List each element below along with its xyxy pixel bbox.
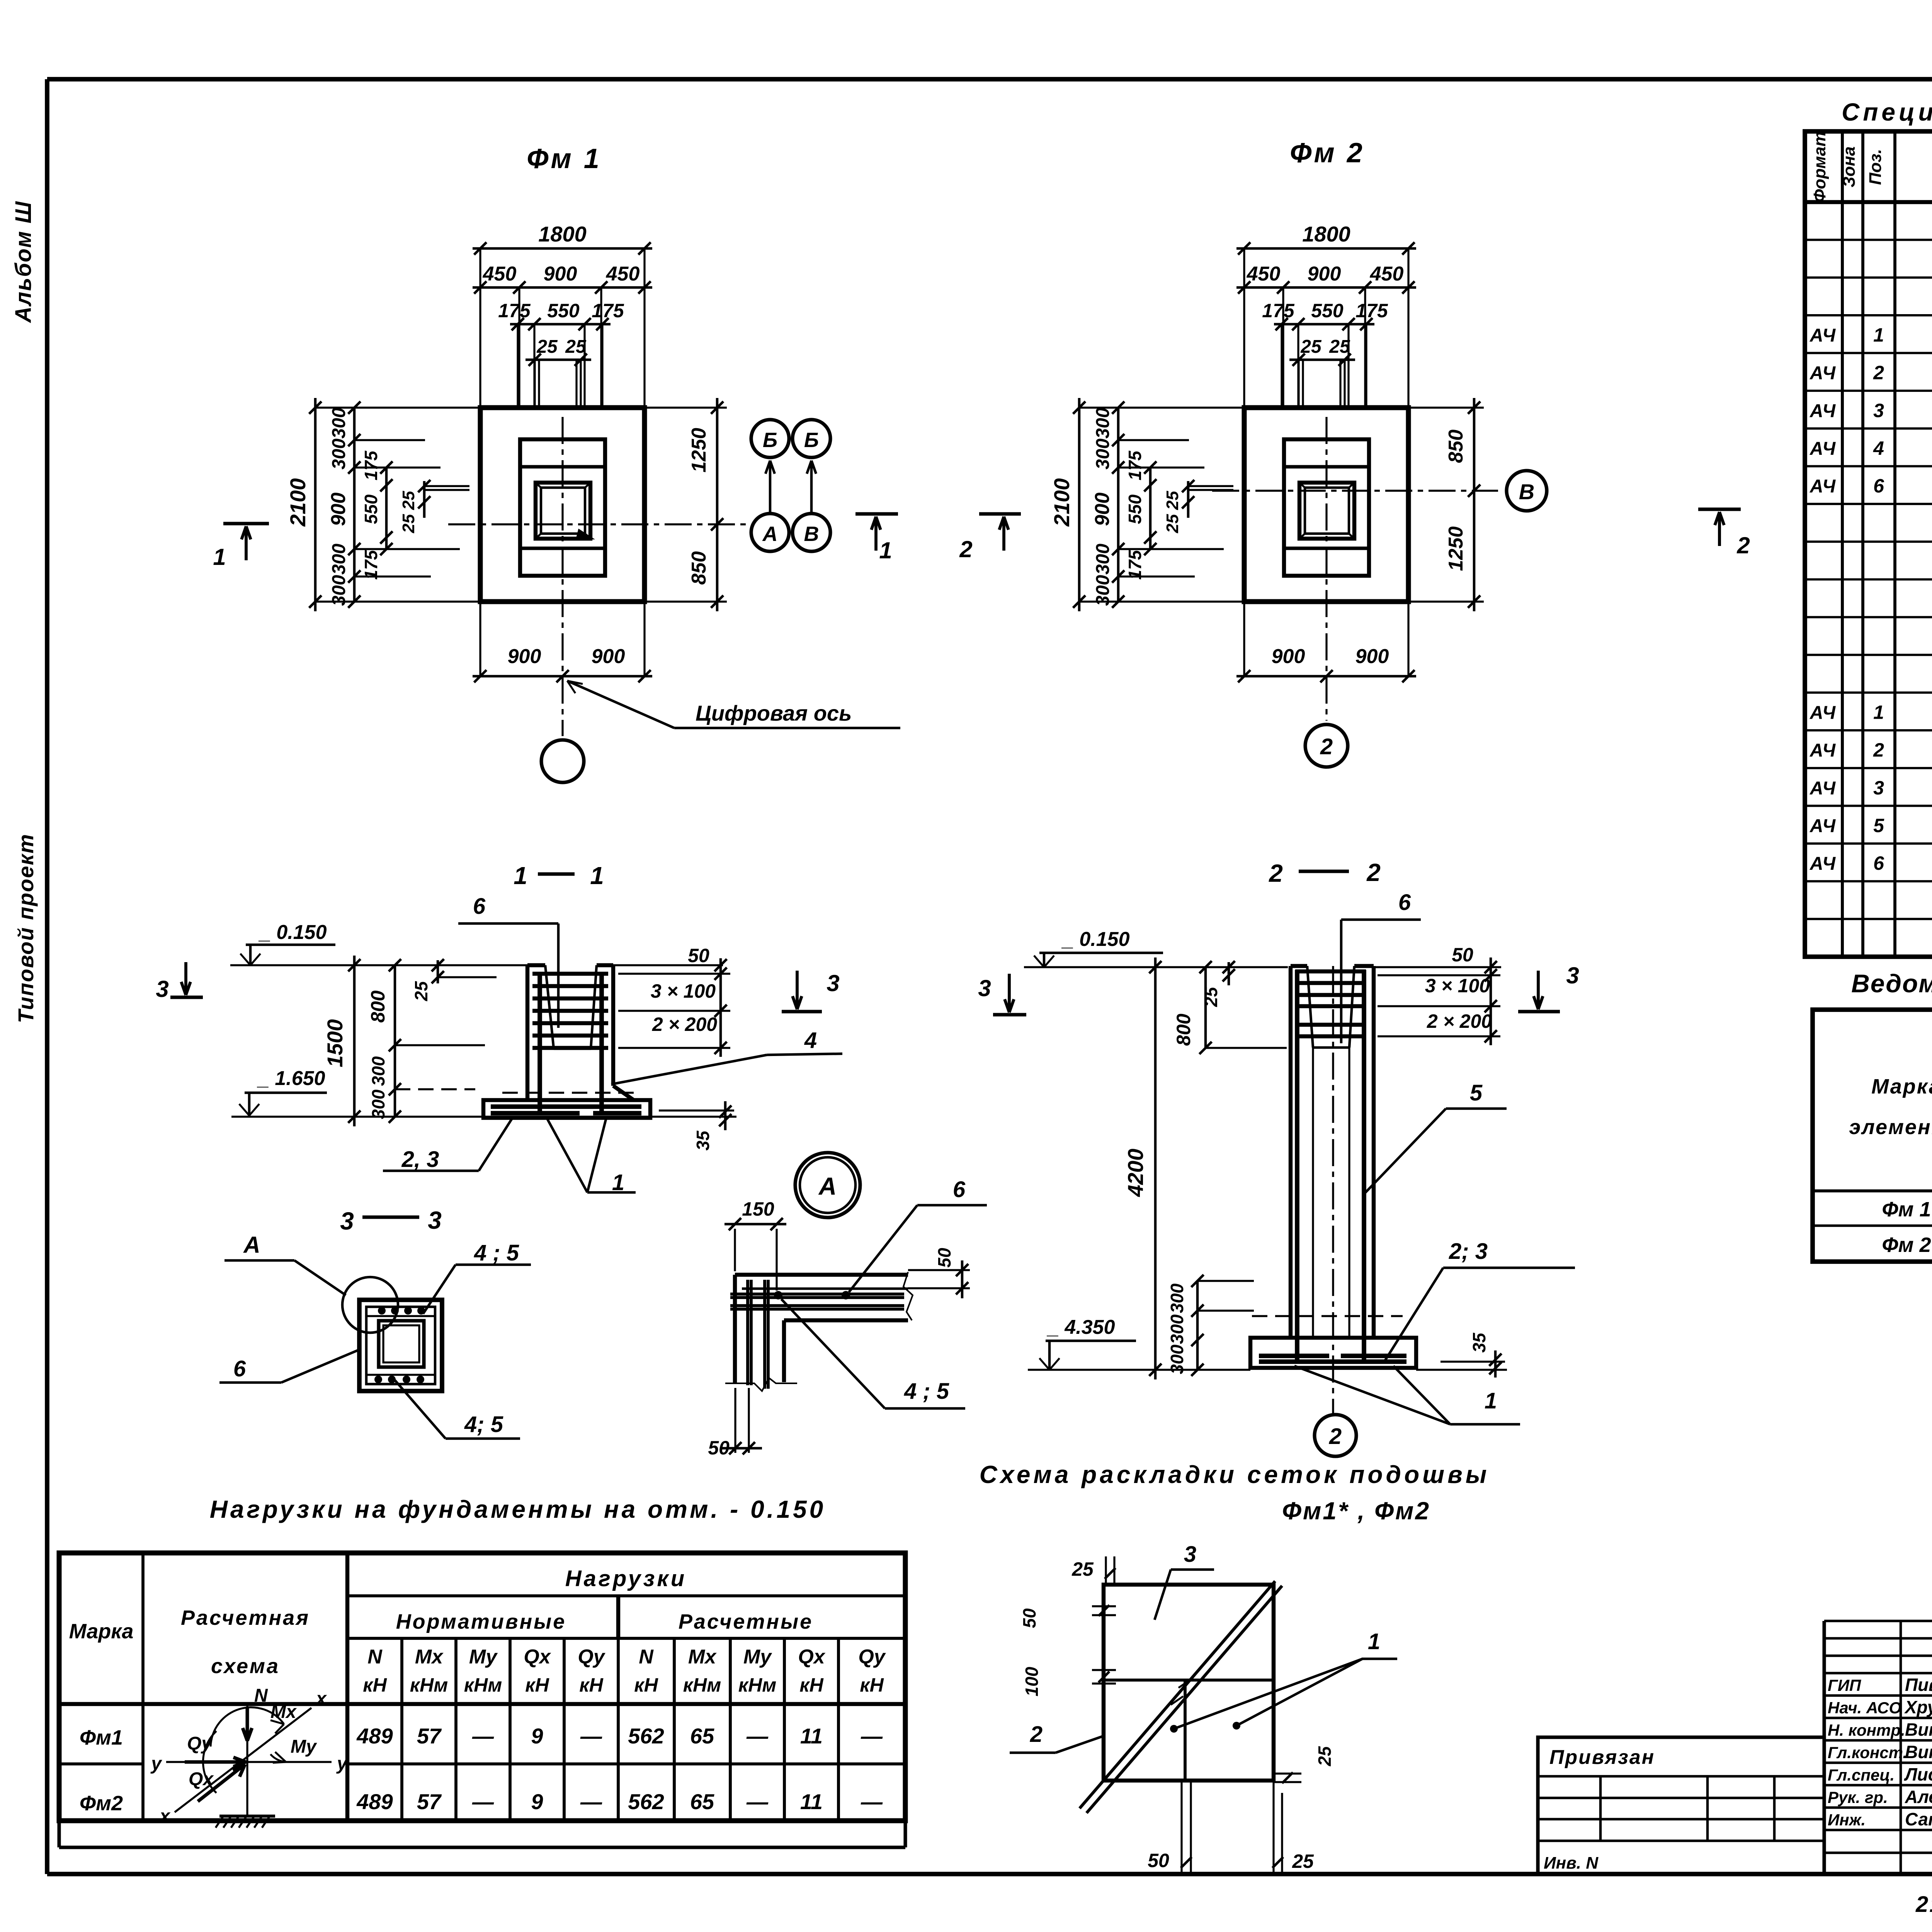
slab of detail A — [735, 1273, 908, 1277]
svg-text:Ведомость расхода стали на: Ведомость расхода стали на элемент, кг — [1851, 969, 1932, 998]
plan: column glass (inner squares) — [536, 483, 590, 539]
svg-text:450: 450 — [606, 263, 640, 285]
svg-text:57: 57 — [417, 1789, 442, 1814]
privyazan block — [1538, 1737, 1824, 1874]
svg-text:N: N — [254, 1685, 268, 1706]
load schema: Qy arrow — [185, 1757, 246, 1767]
dim chain 800 / 25 (section 2-2) — [1204, 967, 1207, 1048]
svg-text:25: 25 — [1163, 514, 1182, 533]
plan: foundation plate outline — [1244, 408, 1408, 602]
svg-text:25: 25 — [1300, 337, 1322, 357]
svg-text:кНм: кНм — [410, 1674, 448, 1696]
scheme inner horizontal line — [1104, 1679, 1274, 1682]
svg-text:Лисичукин: Лисичукин — [1904, 1764, 1932, 1784]
svg-text:кНм: кНм — [464, 1674, 502, 1696]
svg-text:65: 65 — [690, 1789, 714, 1814]
svg-text:Qx: Qx — [798, 1646, 825, 1668]
svg-text:схема: схема — [211, 1655, 280, 1678]
svg-text:6: 6 — [233, 1356, 246, 1381]
plan: horizontal centerline — [448, 523, 749, 525]
svg-text:2: 2 — [1873, 362, 1884, 384]
svg-text:Винклер: Винклер — [1905, 1742, 1932, 1762]
svg-text:Фм 2: Фм 2 — [1882, 1233, 1931, 1257]
staff table grid — [1822, 1621, 1826, 1874]
svg-text:—: — — [472, 1724, 494, 1748]
svg-text:Марка: Марка — [1871, 1075, 1932, 1098]
svg-text:175: 175 — [498, 300, 531, 321]
svg-text:800: 800 — [1173, 1014, 1194, 1046]
svg-text:9: 9 — [531, 1724, 543, 1748]
svg-text:Б: Б — [804, 429, 819, 452]
svg-text:кН: кН — [363, 1674, 387, 1696]
spec table outer border — [1805, 131, 1932, 957]
slab bottom rebar mesh — [491, 1104, 641, 1109]
svg-text:кНм: кНм — [683, 1674, 721, 1696]
loads table vertical lines — [141, 1553, 145, 1821]
load schema diagram: axes — [246, 1703, 248, 1816]
right dim 35 (slab cover) — [659, 1109, 734, 1111]
svg-text:900: 900 — [508, 645, 541, 668]
section cut mark 1 (left of FM1) — [223, 522, 269, 525]
plan bottom axis circle — [1305, 724, 1348, 767]
svg-text:6: 6 — [953, 1177, 966, 1202]
svg-text:Qx: Qx — [189, 1769, 214, 1789]
column vertical rebars — [537, 973, 542, 1112]
svg-text:Схема раскладки сеток подошвы: Схема раскладки сеток подошвы — [980, 1461, 1490, 1488]
svg-text:3: 3 — [978, 975, 991, 1001]
svg-text:кНм: кНм — [738, 1674, 776, 1696]
svg-text:Фм1* , Фм2: Фм1* , Фм2 — [1282, 1497, 1430, 1525]
column shaft (section 2-2) — [1289, 966, 1293, 1338]
plan: corner fill mark — [576, 529, 595, 539]
svg-text:4: 4 — [804, 1028, 817, 1053]
axis circles Б Б above — [751, 420, 789, 457]
column centerline dash-dot — [1332, 966, 1334, 1413]
plan left dimension 2100 — [1078, 398, 1081, 611]
svg-text:450: 450 — [1370, 263, 1404, 285]
scheme outer square — [1104, 1585, 1274, 1781]
svg-text:АЧ: АЧ — [1810, 854, 1836, 874]
wall break line bottom — [725, 1378, 797, 1391]
scheme inner vertical line — [1184, 1680, 1187, 1781]
svg-text:АЧ: АЧ — [1810, 702, 1836, 723]
svg-text:А: А — [762, 522, 778, 546]
svg-text:850: 850 — [1445, 430, 1467, 463]
svg-text:АЧ: АЧ — [1810, 363, 1836, 384]
svg-text:х: х — [315, 1689, 327, 1709]
svg-text:Пивторак: Пивторак — [1905, 1675, 1932, 1695]
plan: vertical centerline — [561, 417, 563, 736]
svg-text:2 × 200: 2 × 200 — [1427, 1010, 1492, 1032]
svg-text:Рук. гр.: Рук. гр. — [1828, 1788, 1888, 1806]
dim 1500 vertical — [353, 956, 356, 1126]
svg-text:N: N — [367, 1646, 383, 1668]
svg-text:11: 11 — [800, 1789, 823, 1814]
svg-text:25: 25 — [1071, 1558, 1094, 1580]
svg-text:1250: 1250 — [1445, 526, 1467, 571]
footing slab (section 1-1) — [483, 1100, 650, 1118]
drawing sheet frame — [47, 77, 1932, 82]
plan: vertical centerline — [1325, 417, 1327, 721]
svg-text:—: — — [580, 1724, 602, 1748]
svg-text:2: 2 — [1873, 739, 1884, 761]
svg-text:11: 11 — [800, 1724, 823, 1748]
svg-text:—: — — [861, 1789, 883, 1814]
svg-text:25: 25 — [565, 337, 587, 357]
svg-text:Mx: Mx — [415, 1646, 444, 1668]
svg-text:АЧ: АЧ — [1810, 325, 1836, 346]
plan small dim 25 25 — [1187, 481, 1190, 518]
axis circle B (right of FM2) — [1507, 471, 1547, 511]
svg-text:50: 50 — [934, 1248, 954, 1268]
svg-text:Qy: Qy — [578, 1646, 605, 1668]
svg-text:Типовой проект: Типовой проект — [14, 833, 38, 1023]
svg-text:Н. контр.: Н. контр. — [1828, 1721, 1905, 1739]
svg-text:Mx: Mx — [688, 1646, 717, 1668]
svg-text:3: 3 — [156, 976, 168, 1002]
svg-text:57: 57 — [417, 1724, 442, 1748]
svg-text:175: 175 — [1125, 549, 1145, 580]
svg-text:АЧ: АЧ — [1810, 740, 1836, 761]
level line -0.150 — [230, 964, 527, 966]
plan left chain 300 300 900 300 300 — [353, 408, 356, 602]
svg-text:N: N — [639, 1646, 654, 1668]
section cut mark 2 (right of FM2) — [1698, 507, 1741, 511]
svg-text:Расчетные: Расчетные — [679, 1610, 813, 1633]
svg-text:450: 450 — [1247, 263, 1281, 285]
svg-text:кН: кН — [860, 1674, 884, 1696]
svg-text:35: 35 — [1469, 1332, 1489, 1353]
svg-text:3: 3 — [1566, 963, 1579, 988]
load schema: N arrow — [243, 1708, 252, 1741]
svg-text:В: В — [1519, 480, 1534, 504]
level line -0.150 (section 2-2) — [1024, 966, 1288, 968]
svg-text:1: 1 — [590, 862, 604, 889]
break marks on slab right end — [903, 1272, 913, 1320]
plan: pedestal outline — [520, 439, 605, 576]
plan right dimension — [1473, 398, 1476, 611]
column of foundation (section 1-1) — [526, 965, 529, 1100]
svg-text:550: 550 — [361, 494, 381, 524]
svg-text:2: 2 — [1030, 1722, 1043, 1747]
svg-text:300: 300 — [1093, 575, 1113, 606]
svg-text:100: 100 — [1022, 1667, 1042, 1696]
svg-text:300: 300 — [1167, 1314, 1187, 1344]
svg-text:50: 50 — [1148, 1850, 1169, 1871]
svg-text:150: 150 — [742, 1198, 774, 1220]
svg-text:50: 50 — [688, 945, 709, 966]
dim chain 800/300/300 — [394, 965, 396, 1117]
svg-text:Гл.конст.: Гл.конст. — [1828, 1743, 1907, 1762]
svg-text:2: 2 — [1320, 734, 1333, 759]
section 3-3 inner opening — [379, 1321, 424, 1367]
svg-text:21177- 03: 21177- 03 — [1915, 1892, 1932, 1917]
svg-text:Нагрузки на фундаменты: Нагрузки на фундаменты на отм. - 0.150 — [210, 1495, 826, 1523]
svg-text:—: — — [472, 1789, 494, 1814]
svg-text:_ 0.150: _ 0.150 — [258, 921, 327, 944]
svg-text:2: 2 — [1366, 859, 1381, 886]
svg-text:25: 25 — [1292, 1850, 1314, 1872]
svg-text:300: 300 — [329, 575, 349, 606]
detail callout circle A on corner — [342, 1277, 398, 1333]
svg-text:3: 3 — [1184, 1542, 1196, 1567]
svg-text:1500: 1500 — [323, 1019, 347, 1068]
svg-text:4: 4 — [1873, 437, 1884, 459]
svg-text:300: 300 — [368, 1056, 388, 1086]
svg-text:Фм 2: Фм 2 — [1290, 138, 1365, 168]
svg-text:3: 3 — [340, 1207, 354, 1235]
svg-text:Нач. АСО: Нач. АСО — [1828, 1699, 1901, 1717]
section cut mark 2 (left of FM2) — [979, 512, 1021, 515]
load schema: Mx arc arrow — [211, 1708, 284, 1747]
plan inner chain 175 550 175 — [1149, 468, 1152, 549]
svg-text:1: 1 — [1873, 324, 1884, 346]
svg-text:ГИП: ГИП — [1828, 1676, 1861, 1694]
rebar section dots (detail A) — [774, 1291, 782, 1299]
plan bottom dimension 900 900 — [1236, 675, 1416, 678]
svg-text:900: 900 — [544, 263, 577, 285]
svg-text:1800: 1800 — [538, 222, 587, 246]
plan small dim 25 25 — [423, 481, 426, 518]
svg-text:Qy: Qy — [858, 1646, 886, 1668]
socket cavity walls — [545, 965, 554, 1049]
slab rebar (section 2-2) — [1259, 1354, 1329, 1358]
svg-text:Формат: Формат — [1810, 131, 1829, 202]
svg-text:_ 4.350: _ 4.350 — [1046, 1316, 1115, 1338]
load schema: ground hatch — [219, 1815, 275, 1818]
svg-text:1: 1 — [213, 544, 226, 570]
svg-text:3 × 100: 3 × 100 — [1425, 975, 1490, 997]
section 3-3 column square — [359, 1300, 442, 1391]
plan left chain 300 300 900 300 300 — [1117, 408, 1120, 602]
svg-text:25: 25 — [1201, 986, 1221, 1007]
svg-text:—: — — [580, 1789, 602, 1814]
svg-text:175: 175 — [1125, 450, 1145, 480]
svg-text:3: 3 — [428, 1206, 442, 1234]
svg-text:_ 0.150: _ 0.150 — [1061, 928, 1130, 951]
axis circle 2 below section 2-2 — [1315, 1415, 1356, 1456]
svg-text:—: — — [861, 1724, 883, 1748]
svg-text:АЧ: АЧ — [1810, 816, 1836, 836]
svg-text:АЧ: АЧ — [1810, 439, 1836, 459]
svg-text:2: 2 — [959, 536, 972, 562]
footing slab (section 2-2) — [1250, 1338, 1416, 1368]
dim 4200 vertical — [1154, 957, 1157, 1379]
svg-text:300: 300 — [329, 544, 349, 575]
svg-text:АЧ: АЧ — [1810, 401, 1836, 421]
svg-text:50: 50 — [708, 1437, 730, 1459]
section 3-3 rebar dots top — [378, 1307, 386, 1315]
svg-text:4 ; 5: 4 ; 5 — [474, 1240, 519, 1265]
plan: pedestal outline — [1284, 439, 1369, 576]
svg-text:кН: кН — [579, 1674, 603, 1696]
svg-text:300: 300 — [1093, 544, 1113, 575]
svg-text:Поз.: Поз. — [1866, 149, 1885, 185]
svg-text:_ 1.650: _ 1.650 — [257, 1067, 325, 1090]
socket walls below cavity — [1312, 1048, 1314, 1336]
axis circles A and B of FM1 — [751, 514, 789, 551]
svg-text:—: — — [746, 1724, 769, 1748]
socket mesh horizontal bars — [532, 972, 608, 976]
svg-text:кН: кН — [799, 1674, 823, 1696]
svg-text:2 × 200: 2 × 200 — [652, 1014, 717, 1035]
dim 50 (detail A bottom) — [734, 1388, 736, 1453]
svg-text:300: 300 — [329, 439, 349, 469]
socket cavity (section 2-2) — [1307, 966, 1313, 1048]
svg-text:4200: 4200 — [1123, 1149, 1148, 1197]
svg-text:65: 65 — [690, 1724, 714, 1748]
load schema: My arc arrow — [203, 1731, 286, 1793]
svg-text:3: 3 — [1873, 400, 1884, 421]
svg-text:6: 6 — [1873, 852, 1884, 874]
scheme double diagonal mesh roll — [1080, 1581, 1275, 1808]
svg-text:Qy: Qy — [187, 1733, 213, 1754]
svg-text:562: 562 — [628, 1724, 664, 1748]
svg-text:Цифровая ось: Цифровая ось — [696, 701, 852, 725]
svg-text:2, 3: 2, 3 — [401, 1147, 439, 1172]
svg-text:300: 300 — [368, 1089, 388, 1119]
svg-text:35: 35 — [693, 1130, 713, 1151]
svg-text:25: 25 — [1329, 337, 1350, 357]
svg-text:900: 900 — [592, 645, 625, 668]
right dim 35 (section 2-2) — [1440, 1361, 1505, 1362]
svg-text:2: 2 — [1736, 532, 1750, 558]
svg-text:Хрупало: Хрупало — [1904, 1697, 1932, 1717]
svg-text:у: у — [150, 1753, 162, 1774]
svg-text:175: 175 — [592, 300, 624, 321]
svg-text:25: 25 — [411, 981, 431, 1002]
svg-text:у: у — [336, 1753, 348, 1774]
svg-text:В: В — [804, 522, 819, 546]
right dim 50 / 3x100 / 2x200 (section 1-1) — [719, 958, 722, 1057]
svg-text:Нормативные: Нормативные — [396, 1610, 566, 1633]
svg-text:6: 6 — [1398, 890, 1411, 915]
svg-text:4; 5: 4; 5 — [464, 1412, 503, 1437]
level line -1.650 / footing base line — [231, 1116, 736, 1117]
svg-text:800: 800 — [367, 990, 389, 1023]
wall vertical rebars (detail A) — [746, 1280, 749, 1385]
plan top dimension 175 550 175 — [510, 323, 611, 326]
spec table vertical lines — [1841, 131, 1844, 957]
svg-text:Алехова: Алехова — [1905, 1787, 1932, 1807]
svg-text:489: 489 — [356, 1724, 393, 1748]
hidden lines in footing — [502, 1092, 634, 1094]
plan top dimension 1800 — [1236, 247, 1416, 250]
svg-text:550: 550 — [547, 300, 580, 321]
svg-text:1: 1 — [1485, 1388, 1497, 1413]
svg-text:Спецификация фундаментов: Спецификация фундаментов Фм1, Фм2 — [1842, 98, 1932, 126]
svg-text:Винклер: Винклер — [1905, 1719, 1932, 1740]
svg-text:6: 6 — [473, 894, 486, 919]
svg-text:My: My — [743, 1646, 772, 1668]
svg-text:900: 900 — [327, 493, 350, 526]
steel table outer border — [1813, 1010, 1932, 1262]
svg-text:300: 300 — [1167, 1283, 1187, 1313]
dim 25 (socket top) — [437, 960, 439, 983]
spec table row lines — [1805, 239, 1932, 241]
column vertical rebars (section 2-2) — [1295, 970, 1299, 1363]
section cut mark 1 (right of FM1) — [855, 512, 898, 515]
svg-text:1: 1 — [1873, 701, 1884, 723]
plan top dimension 25 25 — [1289, 359, 1355, 361]
svg-text:175: 175 — [361, 450, 381, 480]
svg-text:2100: 2100 — [286, 478, 310, 527]
svg-text:Альбом Ш: Альбом Ш — [11, 201, 36, 323]
detail A title circle — [795, 1153, 860, 1218]
svg-text:2: 2 — [1269, 859, 1283, 887]
svg-text:элемента: элемента — [1849, 1116, 1932, 1139]
plan bottom dimension 900 900 — [473, 675, 652, 678]
svg-text:25: 25 — [1163, 491, 1182, 510]
section 3-3 stirrup lines — [366, 1315, 435, 1317]
svg-text:5: 5 — [1873, 815, 1884, 836]
dim chain 300x3 (section 2-2) — [1196, 1281, 1199, 1370]
svg-text:кН: кН — [634, 1674, 658, 1696]
plan left dimension 2100 — [314, 398, 317, 611]
svg-text:175: 175 — [1262, 300, 1295, 321]
plan: column glass (inner squares) — [1299, 483, 1354, 539]
svg-text:175: 175 — [1355, 300, 1388, 321]
svg-text:900: 900 — [1091, 493, 1114, 526]
svg-text:2; 3: 2; 3 — [1449, 1239, 1488, 1264]
svg-text:50: 50 — [1452, 944, 1473, 966]
svg-text:25: 25 — [399, 514, 418, 533]
plan: foundation plate outline — [480, 408, 645, 602]
svg-text:Марка: Марка — [69, 1620, 134, 1643]
dim 50 between rebar pairs (detail A) — [908, 1269, 970, 1271]
cut mark 3 (right, section 1-1) — [793, 971, 802, 1009]
svg-text:А: А — [818, 1172, 837, 1200]
loads table extra bottom row — [57, 1821, 61, 1847]
svg-text:А: А — [243, 1232, 260, 1258]
svg-text:550: 550 — [1311, 300, 1344, 321]
plan top dimension 175 550 175 — [1274, 323, 1374, 326]
svg-text:Инв. N: Инв. N — [1544, 1854, 1599, 1872]
load schema: Qx arrow — [198, 1764, 245, 1801]
svg-text:9: 9 — [531, 1789, 543, 1814]
svg-text:Фм2: Фм2 — [80, 1792, 123, 1815]
loads table header row lines — [347, 1594, 905, 1597]
svg-text:450: 450 — [483, 263, 517, 285]
plan top dimension 450 900 450 — [473, 286, 652, 289]
svg-text:Фм 1: Фм 1 — [527, 143, 602, 174]
arrows from А,В up to Б,Б — [765, 461, 775, 513]
svg-text:Гл.спец.: Гл.спец. — [1828, 1766, 1895, 1784]
hidden line above slab — [1252, 1315, 1403, 1317]
plan inner chain 175 550 175 — [385, 468, 388, 549]
svg-text:Привязан: Привязан — [1549, 1746, 1655, 1769]
svg-text:900: 900 — [1308, 263, 1341, 285]
svg-text:25: 25 — [399, 491, 418, 510]
svg-text:3: 3 — [827, 970, 839, 996]
svg-text:АЧ: АЧ — [1810, 476, 1836, 497]
plan top dimension 1800 — [473, 247, 652, 250]
svg-text:300: 300 — [329, 408, 349, 439]
svg-text:1: 1 — [1368, 1629, 1380, 1654]
svg-text:3: 3 — [1873, 777, 1884, 799]
svg-text:50: 50 — [1019, 1608, 1039, 1628]
right dims 50 / 3x100 / 2x200 (section 2-2) — [1490, 957, 1492, 1045]
plan bottom axis circle — [541, 740, 584, 782]
plan: horizontal centerline — [1212, 490, 1498, 492]
svg-text:850: 850 — [688, 551, 710, 585]
svg-text:My: My — [291, 1736, 317, 1757]
svg-text:2100: 2100 — [1049, 478, 1074, 527]
svg-text:300: 300 — [1093, 439, 1113, 469]
svg-text:Mx: Mx — [270, 1702, 297, 1722]
svg-text:Расчетная: Расчетная — [181, 1606, 310, 1629]
svg-text:кН: кН — [525, 1674, 549, 1696]
